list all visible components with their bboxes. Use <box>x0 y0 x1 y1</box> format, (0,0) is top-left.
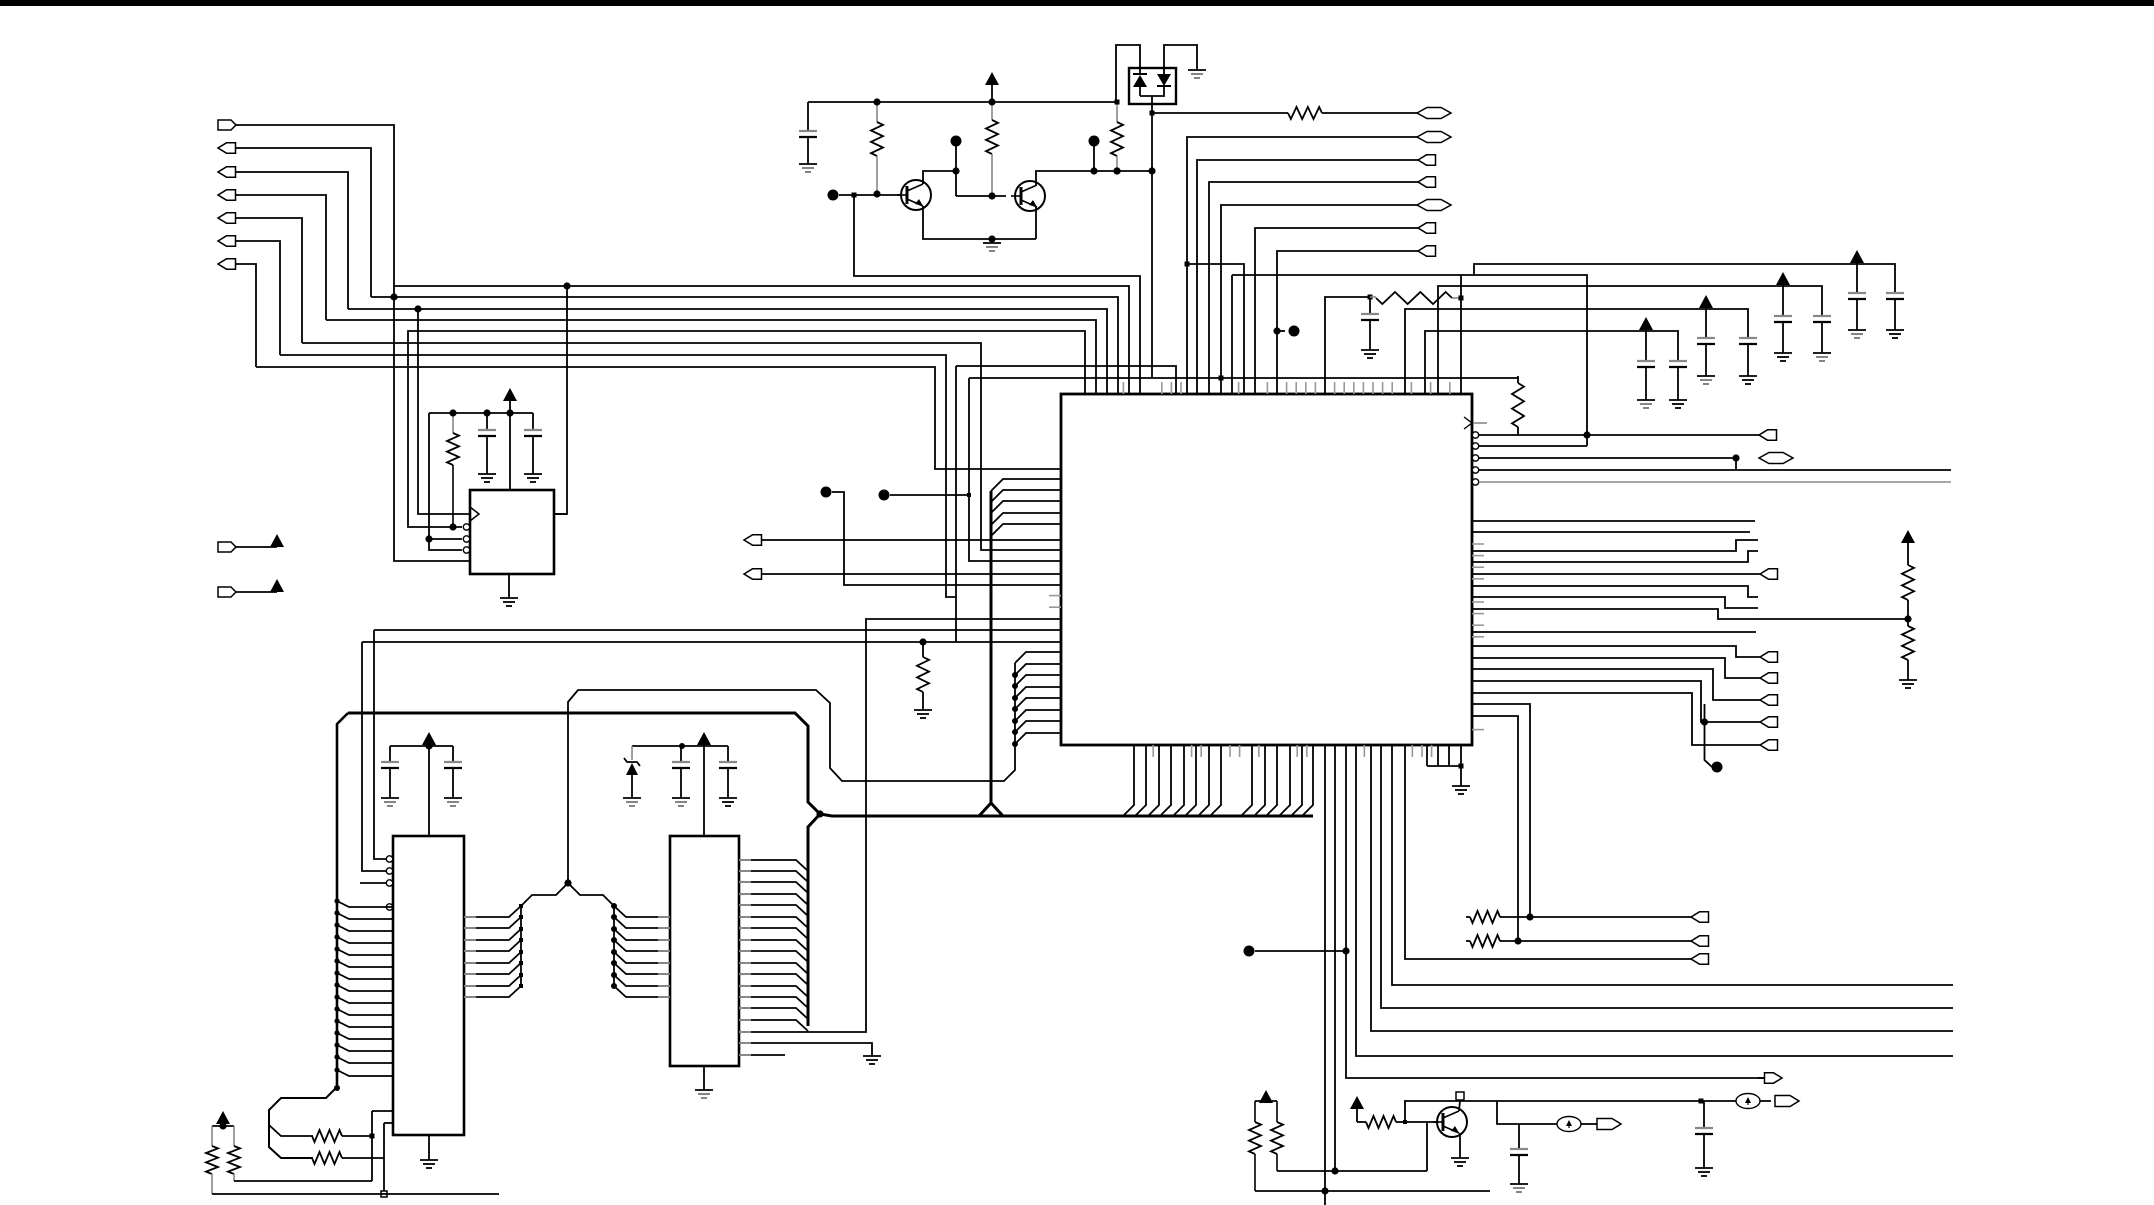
wire bp A4 <box>1160 745 1171 816</box>
wire TP4 drop <box>955 146 957 196</box>
wire U3l 8 <box>337 985 393 991</box>
wire U4r 4 <box>739 894 808 905</box>
resistor R-RC <box>1370 292 1461 304</box>
node trunk Y <box>816 810 823 817</box>
wire U4r 8 <box>739 940 808 951</box>
wire rp 669 <box>1472 669 1760 700</box>
resistor R-U2 <box>447 413 459 527</box>
node emitter gnd <box>988 235 995 242</box>
wire P15 <box>1209 182 1418 394</box>
wire P13 <box>1187 137 1417 394</box>
wire U3 p2 net <box>362 642 386 871</box>
resistor RD2 <box>1902 626 1914 680</box>
wire U3r 6 <box>464 963 521 974</box>
wire diode drop <box>1151 104 1153 378</box>
wire x1704 vert <box>1705 704 1713 767</box>
wire U3 p1 net <box>374 630 386 859</box>
wire r3 drop <box>1735 458 1737 470</box>
node lp 7 <box>1012 729 1018 735</box>
wire feed D <box>1474 264 1895 293</box>
wire bp A8 <box>1210 745 1221 816</box>
power VCC U4 <box>697 732 711 836</box>
wire lp branch 4 <box>1015 687 1061 698</box>
wire lp branch 1 <box>1015 652 1061 663</box>
wire bus y355 <box>280 355 956 597</box>
wire BL rail <box>212 1125 234 1127</box>
bus notch <box>979 803 1003 816</box>
resistor RL2 <box>1466 935 1691 947</box>
resistor R-BL4 <box>228 1126 240 1181</box>
connector P16 (bus) <box>1417 200 1451 211</box>
wire net RES1 <box>1152 112 1288 114</box>
pins U3 right roots <box>464 917 476 997</box>
node lp 3 <box>1012 683 1018 689</box>
wire bus branch L3 <box>991 501 1061 513</box>
capacitor C-U2b <box>524 413 542 474</box>
wire P11 to IC <box>761 573 1061 575</box>
wire P6 to bus <box>235 241 280 355</box>
connector P31 <box>1691 954 1709 964</box>
node U3l 7 <box>334 970 339 975</box>
wire U4r 10 <box>739 963 808 974</box>
node conn3 branch <box>414 305 421 312</box>
node RL2 <box>1514 937 1521 944</box>
junction BL2 <box>381 1191 387 1197</box>
wire U3r 8 <box>464 986 521 997</box>
wire bp x1346 <box>1346 745 1782 1078</box>
wire U4l 6 <box>614 963 670 974</box>
node TP6 stub <box>1273 327 1280 334</box>
connector P30 <box>1691 936 1709 946</box>
mcu U5 box <box>1061 394 1472 745</box>
node bus split <box>334 1085 340 1091</box>
wire bus branch L4 <box>991 513 1061 525</box>
ground RD <box>1899 680 1917 688</box>
wire y378 net <box>969 377 1518 379</box>
resistor R-PU1 <box>1512 376 1524 435</box>
wire U2 rail left drop <box>429 413 462 550</box>
wire U4r 12 <box>739 986 808 997</box>
node U3r 2 <box>519 915 523 919</box>
wire apex trunk <box>568 663 1015 871</box>
ground C-Q1 <box>799 164 817 172</box>
wire P14 <box>1197 160 1418 394</box>
node U4l 8 <box>611 983 617 989</box>
resistor R-BL2 <box>312 1152 384 1164</box>
wire U3r 7 <box>464 975 521 986</box>
power VCC D <box>1850 250 1864 264</box>
wire U4l 1 <box>614 906 670 917</box>
junction RC left <box>1368 295 1373 300</box>
connector P19 (bus) <box>1759 453 1793 464</box>
wire BL y1181 <box>234 1180 372 1182</box>
wire Q1 base long drop <box>854 195 1140 394</box>
ground CA1 <box>1637 400 1655 408</box>
ground C-RC <box>1361 350 1379 358</box>
wire P16 <box>1221 205 1417 394</box>
test point TP8 <box>1712 762 1723 773</box>
diode D1a <box>1133 74 1147 96</box>
connector P27 <box>1597 1119 1621 1130</box>
node y1191 <box>1321 1187 1328 1194</box>
wire r5 line <box>1479 481 1951 483</box>
wire U3r 2 <box>464 917 521 928</box>
test point TP7 <box>1244 946 1255 957</box>
ground C-BM2 <box>1695 1168 1713 1176</box>
wire bp A1 <box>1123 745 1134 816</box>
node U3l 4 <box>334 934 339 939</box>
pins U5 right stubs <box>1472 544 1484 730</box>
ground C-U2b <box>524 474 542 482</box>
wire P8 <box>236 546 277 548</box>
wire U3l 12 <box>337 1033 393 1039</box>
connector P9 (pullup) <box>218 587 236 597</box>
ground CD2 <box>1886 330 1904 338</box>
resistor RD1 <box>1902 565 1914 626</box>
wire conn1 drop to U2 <box>394 286 470 561</box>
wire y1191 <box>1255 1190 1490 1192</box>
wire bus y297 <box>371 297 1118 394</box>
junction y1101-x1704 <box>1699 1099 1704 1104</box>
power VCC U2 <box>503 388 517 490</box>
node U4l 2 <box>611 914 617 920</box>
wire bp A2 <box>1135 745 1146 816</box>
wire BL vert2 <box>384 1123 393 1194</box>
top border bar <box>0 0 2154 6</box>
wire U4r 11 <box>739 974 808 985</box>
wire TP7 <box>1255 950 1346 952</box>
clock mark U1 <box>470 507 479 521</box>
node R-Q3 bottom <box>1113 167 1120 174</box>
resistor R-BL1 <box>312 1130 372 1142</box>
ground U4r <box>863 1056 881 1064</box>
bubble U5 r4 <box>1472 467 1478 473</box>
wire P17 <box>1255 228 1418 394</box>
node U3l 2 <box>334 910 339 915</box>
wire D1a top loop <box>1116 45 1140 102</box>
wire rp 521 <box>1472 520 1755 522</box>
ground Q pair <box>983 243 1001 251</box>
ground U5 <box>1452 786 1470 794</box>
capacitor C-U4a <box>672 746 690 798</box>
wire bus branch L2 <box>991 490 1061 502</box>
wire y1171 <box>1277 1170 1427 1172</box>
junction BL1 <box>370 1134 375 1139</box>
ground C-U3b <box>444 798 462 806</box>
node R-Q3 junction <box>1113 167 1120 174</box>
connector P32 <box>1759 430 1777 440</box>
ground Q3 <box>1451 1158 1469 1166</box>
wire x956 riser <box>955 366 957 642</box>
wire bp B3 <box>1266 745 1277 816</box>
capacitor CC1 <box>1774 286 1792 353</box>
bead FB1 <box>1557 1117 1581 1132</box>
node R-Q2 base <box>988 192 995 199</box>
connector P18 <box>1418 246 1436 256</box>
node lp 2 <box>1012 672 1018 678</box>
capacitor CD2 <box>1886 293 1904 330</box>
pins U5 bottom stubs <box>1153 745 1431 757</box>
wire P1 to bus <box>236 125 394 286</box>
wire U3l 4 <box>337 937 393 943</box>
test point TP4 <box>951 136 962 147</box>
wire U3l 13 <box>337 1045 393 1051</box>
resistor R-T1 <box>1288 107 1322 119</box>
node U3l 15 <box>334 1067 339 1072</box>
node diode y171 <box>1148 167 1155 174</box>
connector P14 <box>1418 155 1436 165</box>
capacitor C-U3a <box>381 746 399 798</box>
pin arrow U5 in <box>1464 417 1487 429</box>
wire U4r 7 <box>739 928 808 939</box>
node R-pd <box>919 638 926 645</box>
wire U3r 1 <box>464 906 521 917</box>
bubble U1 pin2 <box>463 524 469 530</box>
capacitor C-U3b <box>444 746 462 798</box>
node U3r 6 <box>519 961 523 965</box>
pins U5 left stubs <box>1049 596 1061 608</box>
bubble U3 p1 <box>386 856 392 862</box>
resistor R-Q3b <box>1357 1116 1438 1128</box>
wire r1 line <box>1479 434 1759 436</box>
wire Q2 base feed <box>956 195 1006 197</box>
wire bp A6 <box>1185 745 1196 816</box>
ground Z1 <box>623 798 641 806</box>
ground C-U4b <box>719 798 737 806</box>
power VCC B <box>1699 295 1713 309</box>
wire rp 597 <box>1472 597 1758 608</box>
junction y264 <box>1185 262 1190 267</box>
connector P1 (out) <box>218 120 236 130</box>
wire bus y343 <box>302 343 1061 550</box>
resistor RL1 <box>1466 911 1691 923</box>
transistor Q1 <box>897 180 931 210</box>
bubble U5 r2 <box>1472 443 1478 449</box>
node R-Q1 base <box>873 190 880 197</box>
wire bp B4 <box>1279 745 1290 816</box>
test point TP1 <box>821 487 832 498</box>
wire rp 551 <box>1472 540 1758 551</box>
node apex <box>564 879 571 886</box>
test point TP6 <box>1289 326 1300 337</box>
wire lp branch 5 <box>1015 698 1061 709</box>
wire lp branch 8 <box>1015 733 1061 744</box>
connector P26 <box>1758 1073 1782 1083</box>
wire feed B <box>1405 309 1748 394</box>
node R-U2 top <box>449 409 456 416</box>
wire P7 to bus <box>235 264 256 367</box>
node U3l 6 <box>334 958 339 963</box>
capacitor C-Q1 <box>799 102 817 164</box>
wire U3 rail <box>390 745 453 747</box>
wire Q rail y102 <box>808 101 1117 103</box>
node C-U2a top <box>483 409 490 416</box>
ground CC2 <box>1813 353 1831 361</box>
wire U3r 3 <box>464 929 521 940</box>
wire D1 internal <box>1140 86 1164 104</box>
ground CA2 <box>1669 400 1687 408</box>
wire r4 line <box>1479 469 1951 471</box>
wire bp x1371 <box>1371 745 1953 1031</box>
node R-Q2 rail <box>988 98 995 105</box>
node y275-435 <box>1583 431 1590 438</box>
node VCC-rail U2 <box>506 409 513 416</box>
capacitor C-BM1 <box>1510 1124 1528 1184</box>
wire Q3 emitter <box>1459 1133 1461 1158</box>
pins U4 right roots <box>739 860 751 1055</box>
power VCC P9 <box>270 579 284 592</box>
wire rp 574 <box>1472 573 1760 575</box>
wire U4r 3 <box>739 882 808 893</box>
wire cap branch <box>1497 1101 1605 1124</box>
node RL1 <box>1526 913 1533 920</box>
wire U3l 10 <box>337 1009 393 1015</box>
power VCC A <box>1639 317 1653 331</box>
node Q1 coll tee <box>952 167 959 174</box>
connector P29 <box>1691 912 1709 922</box>
ground C-U3a <box>381 798 399 806</box>
wire net y275 <box>1231 275 1233 394</box>
wire U4r 1 <box>739 860 808 871</box>
wire M left <box>521 883 568 988</box>
power VCC C <box>1776 272 1790 286</box>
wire rp 609 <box>1472 609 1908 619</box>
wire U4l 7 <box>614 975 670 986</box>
wire U3 p1 long <box>374 629 1061 631</box>
connector P5 <box>218 213 236 223</box>
wire U4r 2 <box>739 871 808 882</box>
capacitor CA1 <box>1637 331 1655 400</box>
wire rp 532 <box>1472 531 1750 533</box>
connector P25 <box>1760 740 1778 750</box>
junction Q3 coll <box>1456 1092 1464 1100</box>
wire net y264 <box>1187 264 1244 394</box>
wire P3 to bus <box>235 172 348 309</box>
wire U4l 4 <box>614 940 670 951</box>
node conn1-conn2 junction <box>390 293 397 300</box>
bubble U3 p2 <box>386 868 392 874</box>
wire U3 gnd <box>428 1135 430 1160</box>
wire Q1 collector <box>923 171 956 184</box>
node lp 4 <box>1012 695 1018 701</box>
capacitor CB1 <box>1697 309 1715 376</box>
connector P3 <box>218 167 236 177</box>
wire U2 pin3 <box>429 538 462 540</box>
wire U4r gnd <box>739 1043 872 1056</box>
node U3r 1 <box>519 904 523 908</box>
ground R-pd <box>914 710 932 718</box>
wire rp 658 <box>1472 658 1760 678</box>
node U4l 5 <box>611 949 617 955</box>
node U3l 8 <box>334 982 339 987</box>
node U4 rail <box>679 743 685 749</box>
wire U2 top rail <box>429 412 533 414</box>
resistor R-Q1 <box>871 102 883 193</box>
node U3r 5 <box>519 950 523 954</box>
wire U3l 11 <box>337 1021 393 1027</box>
junction gnd bar <box>1459 764 1464 769</box>
wire U2 pin2 net <box>408 331 1085 527</box>
wire TP5 drop <box>1093 146 1095 171</box>
wire U3 p2 long <box>362 641 1061 643</box>
ground U1 <box>500 598 518 606</box>
capacitor CB2 <box>1739 338 1757 376</box>
bubble U1 pin4 <box>463 547 469 553</box>
node TP5 junction <box>1090 167 1097 174</box>
wire P2 to bus <box>235 148 371 297</box>
wire bp A3 <box>1148 745 1159 816</box>
resistor R-Q3 <box>1111 102 1123 171</box>
wire TP1 to IC <box>832 492 1061 585</box>
node U3r 3 <box>519 927 523 931</box>
connector P7 <box>218 259 236 269</box>
wire bus split <box>269 1087 337 1158</box>
wire U4r 14 <box>739 1008 808 1019</box>
wire lp branch 2 <box>1015 664 1061 675</box>
node U3l 11 <box>334 1018 339 1023</box>
wire bp x1381 <box>1381 745 1953 1008</box>
wire bus branch L5 <box>991 524 1061 536</box>
wire Q1 emitter <box>923 206 1036 239</box>
wire gnd drop <box>1460 766 1462 786</box>
wire U3l 15 <box>337 1070 393 1076</box>
wire TP6 stub <box>1277 330 1285 332</box>
wire lp branch 6 <box>1015 710 1061 721</box>
pins U4 left roots <box>658 917 670 997</box>
wire Q2 collector <box>1036 171 1152 185</box>
node bigdot line <box>1342 947 1349 954</box>
wire conn3 to U2 clock <box>418 309 470 514</box>
wire RES1 to conn <box>1322 112 1417 114</box>
wire U1 gnd stub <box>508 574 510 598</box>
wire U4r long1 <box>739 619 1061 1032</box>
wire bus y309 <box>348 309 1107 394</box>
wire rp 586 <box>1472 586 1758 597</box>
resistor R-BM1 <box>1249 1101 1261 1191</box>
test point TP2 <box>879 490 890 501</box>
op-amp U1 box <box>470 490 554 574</box>
diode pack D1 box <box>1129 68 1176 104</box>
node U3l 13 <box>334 1042 339 1047</box>
capacitor C-RC <box>1361 297 1379 350</box>
connector P15 <box>1418 177 1436 187</box>
wire U4r 5 <box>739 905 808 916</box>
memory U3 box <box>393 836 464 1135</box>
wire U4r stub <box>739 1054 785 1056</box>
wire bus branch L1 <box>991 479 1061 491</box>
bubble U3 p3 <box>386 880 392 886</box>
connector P6 <box>218 236 236 246</box>
node TP2 tie <box>967 493 971 497</box>
wire IC gnd bar <box>1427 745 1461 766</box>
node VCC BL <box>219 1122 226 1129</box>
wire bus y367 <box>256 367 1061 469</box>
resistor R-BL3 <box>206 1126 218 1194</box>
bubble U5 r1 <box>1472 432 1478 438</box>
ground CB1 <box>1697 376 1715 384</box>
connector P20 <box>1760 569 1778 579</box>
node R-U2 bottom <box>449 523 456 530</box>
wire P10 to IC <box>761 539 1061 541</box>
wire P9 <box>236 591 277 593</box>
bus U3 left <box>337 713 348 1087</box>
wire bus y286 <box>394 286 1129 394</box>
wire U4r 13 <box>739 997 808 1008</box>
ground CB2 <box>1739 376 1757 384</box>
node conn1/U2 <box>563 282 570 289</box>
node U3l 1 <box>334 898 339 903</box>
connector P12 (bus) <box>1417 108 1451 119</box>
